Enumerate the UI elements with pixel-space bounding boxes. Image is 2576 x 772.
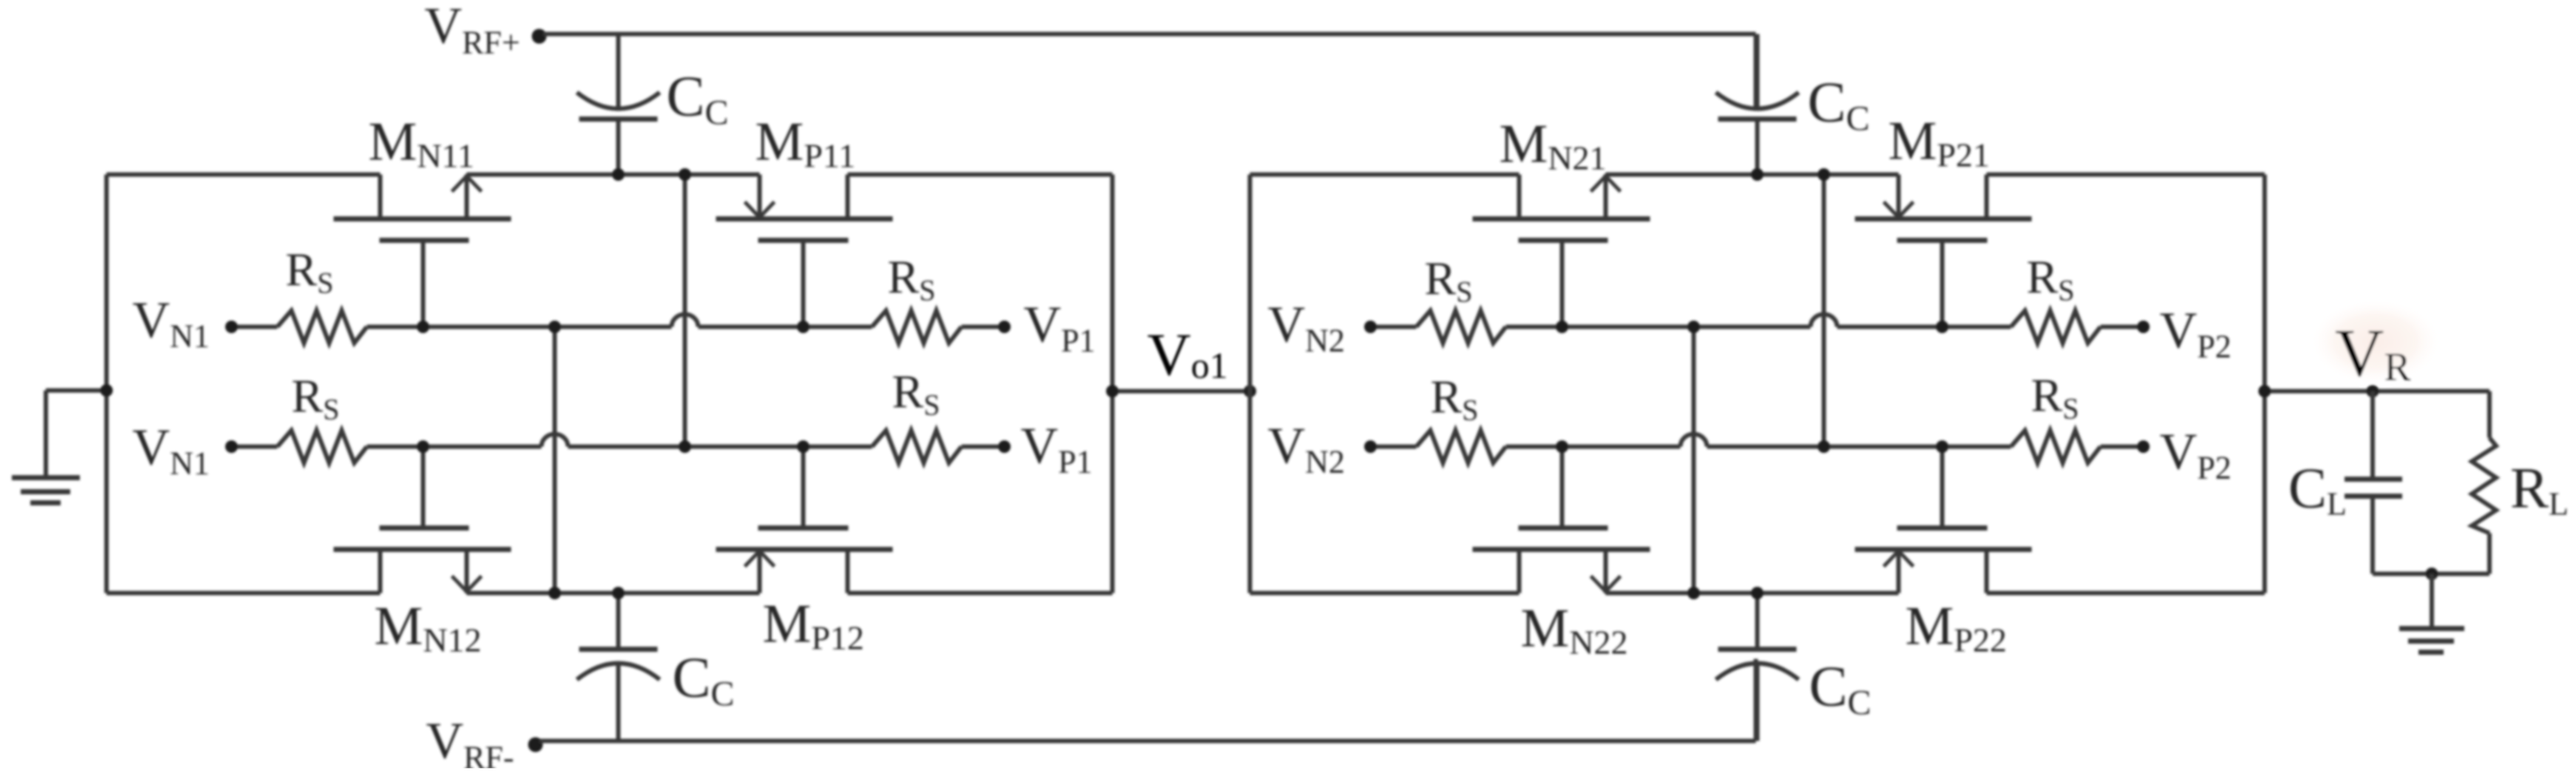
resistor RS (upper-right, stage 1) (872, 311, 961, 343)
ground (left) (12, 478, 80, 503)
label VRF- (426, 713, 514, 772)
wire: MN11 gate to upper node line (421, 243, 425, 327)
node: stage 1 top rail / vertical junction (679, 169, 692, 181)
node VR / CL tap junction (2367, 385, 2379, 398)
label Vo1 (1147, 321, 1228, 388)
node: stage 2 top rail / top cap junction (1751, 169, 1764, 181)
node: stage 2 top rail / vertical junction (1818, 169, 1830, 181)
node: stage 2 lower line / PMOS gate junction (1936, 441, 1949, 453)
node: stage 2 upper line / PMOS gate junction (1936, 321, 1949, 333)
transistor MP12 (PMOS, bottom) (716, 528, 893, 593)
node VP1 (upper output terminal) (998, 321, 1011, 333)
label RS lower-left stage 1 (291, 370, 339, 426)
node: stage 2 upper line / NMOS gate junction (1556, 321, 1569, 333)
transistor MN11 (NMOS, top) (334, 175, 511, 240)
transistor MN22 (NMOS, bottom) (1473, 528, 1650, 593)
node: stage 1 upper line / NMOS gate junction (417, 321, 430, 333)
wire: ground stub (right) (2430, 574, 2434, 629)
resistor RS (upper-left, stage 2) (1416, 311, 1506, 343)
node: stage 1 upper line / PMOS gate junction (797, 321, 810, 333)
node: stage 2 bottom rail / vertical end junction (1688, 587, 1700, 600)
capacitor CC (bottom, stage 2) (1716, 593, 1799, 741)
label MP21 (1888, 111, 1990, 174)
resistor RS (lower-right, stage 2) (2011, 430, 2100, 463)
node: load bottom / ground junction (2426, 568, 2438, 580)
label MN21 (1499, 114, 1606, 177)
label CC bottom stage 1 (672, 645, 734, 714)
label MN22 (1521, 598, 1628, 661)
label CC bottom stage 2 (1809, 654, 1871, 722)
transistor MN21 (NMOS, top) (1473, 175, 1650, 240)
highlight blush behind VR (2308, 297, 2444, 386)
label RL (2510, 456, 2569, 522)
label VRF+ (425, 0, 520, 61)
node: stage 1 left bus / ground junction (101, 385, 113, 397)
node VN1 (upper input terminal) (226, 321, 238, 333)
label RS lower-right stage 2 (2031, 369, 2079, 425)
wire: MN12 gate to lower node line (421, 447, 425, 526)
label CC top stage 1 (666, 64, 728, 132)
node: stage 1 lower line / PMOS gate junction (797, 441, 810, 453)
node: stage 1 lower line / vertical end junction (679, 441, 692, 453)
resistor RS (lower-left, stage 2) (1416, 430, 1506, 463)
node VN1 (lower input terminal) (226, 441, 238, 453)
wire: stage 1 vertical from top rail to lower node line (683, 175, 687, 447)
label VN1 upper (132, 292, 209, 354)
node: stage 1 top rail / top cap junction (612, 169, 625, 181)
label RS lower-left stage 2 (1430, 370, 1478, 427)
resistor RS (lower-right, stage 1) (872, 430, 961, 463)
capacitor CC (bottom, stage 1) (577, 593, 660, 741)
transistor MP11 (PMOS, top) (716, 175, 893, 240)
resistor RL (2472, 391, 2496, 574)
wire: stage 2 left vertical bus (1248, 175, 1252, 593)
wire: stage 1 top rail right segment (848, 172, 1112, 177)
wire: stage 1 right vertical bus (1110, 175, 1115, 593)
label VP1 lower (1021, 418, 1092, 480)
wire: stage 1 bottom rail middle segment (467, 591, 760, 595)
wire: stage 1 vertical from upper node line to bottom rail (552, 327, 557, 593)
wire: VRF+ top distribution wire (544, 34, 1756, 111)
label VN1 lower (132, 419, 209, 481)
node Vo1 left junction (1106, 385, 1119, 398)
wire: stage 2 top rail left segment (1250, 172, 1519, 177)
label VP2 lower (2160, 424, 2231, 486)
wire: stage 1 ground tap (46, 390, 107, 478)
wire: stage 2 bottom rail left segment (1250, 591, 1519, 595)
wire: stage 2 top rail right segment (1987, 172, 2265, 177)
wire: MP12 gate to lower node line (801, 447, 805, 526)
label MN11 (368, 112, 474, 175)
node: stage 1 bottom rail / vertical end junction (549, 587, 561, 600)
ground (right) (2399, 629, 2464, 652)
wire: MP22 gate to lower node line (1940, 447, 1944, 526)
wire: stage 2 top rail middle segment (1606, 172, 1899, 177)
node VP2 (upper output terminal) (2137, 321, 2150, 333)
transistor MN12 (NMOS, bottom) (334, 528, 511, 593)
node: stage 2 upper line / vertical junction (1688, 321, 1700, 333)
label CC top stage 2 (1808, 70, 1870, 138)
label MP12 (763, 594, 864, 657)
node VP2 (lower output terminal) (2137, 441, 2150, 453)
transistor MP21 (PMOS, top) (1855, 175, 2032, 240)
wire: MN22 gate to lower node line (1560, 447, 1564, 526)
label VN2 lower (1268, 418, 1345, 480)
label MN12 (374, 596, 481, 659)
wire: stage 1 top rail left segment (107, 172, 380, 177)
label RS upper-left stage 1 (285, 243, 334, 299)
label VN2 upper (1268, 297, 1345, 359)
node: stage 1 bottom rail / bottom cap junction (612, 587, 625, 600)
resistor RS (upper-left, stage 1) (277, 311, 367, 343)
wire: stage 2 upper node line with hop (1370, 314, 2143, 327)
label CL (2288, 456, 2347, 522)
label RS upper-right stage 1 (888, 251, 936, 307)
node: stage 2 lower line / vertical end junction (1818, 441, 1830, 453)
label RS upper-right stage 2 (2026, 251, 2075, 307)
label VP1 upper (1024, 297, 1095, 359)
node: stage 2 lower line / NMOS gate junction (1556, 441, 1569, 453)
label MP22 (1905, 596, 2007, 659)
wire: stage 1 lower node line with hop (231, 434, 1004, 447)
transistor MP22 (PMOS, bottom) (1855, 528, 2032, 593)
node: stage 2 bottom rail / bottom cap junction (1751, 587, 1764, 600)
wire: stage 2 right vertical bus (2262, 175, 2267, 593)
label MP11 (755, 112, 856, 175)
wire: MP21 gate to upper node line (1940, 243, 1944, 327)
node VP1 (lower output terminal) (998, 441, 1011, 453)
label RS upper-left stage 2 (1424, 252, 1473, 308)
node VN2 (lower input terminal) (1365, 441, 1377, 453)
wire: stage 1 upper node line with hop (231, 314, 1004, 327)
wire: stage 2 lower node line with hop (1370, 434, 2143, 447)
label VP2 upper (2160, 302, 2231, 365)
node VN2 (upper input terminal) (1365, 321, 1377, 333)
node VRF- terminal (528, 737, 543, 752)
wire: stage 2 vertical from top rail to lower node line (1822, 175, 1826, 447)
wire: stage 1 left vertical bus (104, 175, 109, 593)
label RS lower-right stage 1 (892, 365, 940, 421)
label VR (2335, 315, 2410, 390)
node: stage 1 upper line / vertical junction (549, 321, 561, 333)
wire: VR output line (2265, 389, 2489, 393)
capacitor CC (top, stage 2) (1716, 34, 1799, 175)
wire: stage 2 bottom rail middle segment (1606, 591, 1899, 595)
wire: stage 2 bottom rail right segment (1987, 591, 2265, 595)
node Vo1 right junction (1244, 385, 1257, 398)
wire: stage 1 bottom rail right segment (848, 591, 1112, 595)
node VRF+ terminal (532, 29, 547, 44)
wire: Vo1 interstage link (1112, 389, 1250, 393)
capacitor CL (2345, 391, 2402, 574)
node: output line / stage 2 right bus junction (2259, 385, 2271, 398)
wire: load bottom line (2373, 572, 2489, 576)
wire: MP11 gate to upper node line (801, 243, 805, 327)
resistor RS (lower-left, stage 1) (277, 430, 367, 463)
node: stage 1 lower line / NMOS gate junction (417, 441, 430, 453)
resistor RS (upper-right, stage 2) (2011, 311, 2100, 343)
wire: stage 1 top rail middle segment (467, 172, 760, 177)
wire: VRF- bottom distribution wire (540, 659, 1756, 741)
wire: stage 1 bottom rail left segment (107, 591, 380, 595)
capacitor CC (top, stage 1) (577, 34, 660, 175)
wire: stage 2 vertical from upper node line to bottom rail (1691, 327, 1696, 593)
wire: MN21 gate to upper node line (1560, 243, 1564, 327)
